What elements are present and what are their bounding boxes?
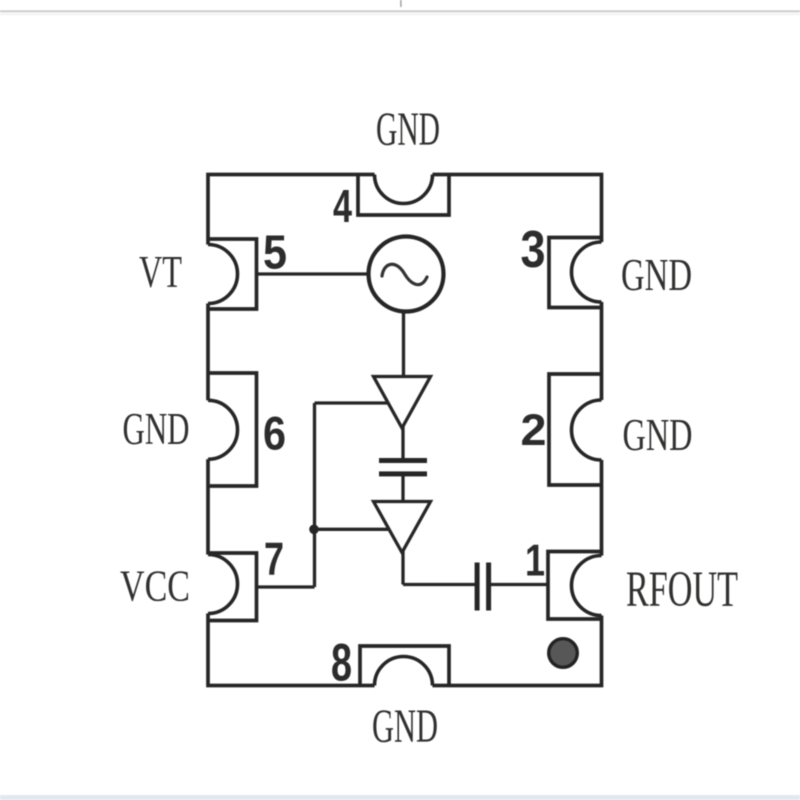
- feedback wire horizontal top: [315, 401, 390, 404]
- notch erasers: [179, 146, 632, 715]
- pin 2 notch: [572, 400, 602, 460]
- oscillator symbol: [369, 237, 444, 312]
- pin 6 tab: [208, 373, 257, 486]
- svg-text:VCC: VCC: [120, 562, 190, 611]
- oscillator sine wave: [382, 264, 427, 284]
- svg-text:8: 8: [331, 634, 352, 693]
- pin 8 notch: [375, 657, 433, 686]
- svg-text:5: 5: [263, 227, 287, 280]
- wire capacitor C1 to amp2: [401, 476, 404, 503]
- wire node to amp2 input: [315, 528, 393, 531]
- wire amp2 output down: [401, 551, 404, 585]
- pin 8 tab: [360, 646, 449, 686]
- svg-text:4: 4: [333, 180, 352, 232]
- pin 3 tab: [549, 238, 602, 308]
- svg-text:6: 6: [263, 407, 286, 460]
- svg-text:GND: GND: [123, 404, 190, 454]
- pin 2 tab: [549, 374, 602, 485]
- svg-text:1: 1: [525, 537, 545, 586]
- top hairline: [0, 10, 800, 12]
- pin 3 notch: [572, 242, 602, 302]
- svg-text:7: 7: [264, 533, 284, 585]
- capacitor C2 plate right: [486, 563, 491, 611]
- bottom band: [0, 795, 800, 800]
- pin 1 tab: [548, 552, 602, 620]
- wire oscillator to amp1: [402, 306, 405, 378]
- svg-text:GND: GND: [623, 409, 693, 460]
- svg-text:2: 2: [521, 406, 547, 455]
- wire pin7 to feedback: [257, 585, 315, 588]
- wire amp2 to capacitor C2: [403, 583, 476, 586]
- capacitor C2 plate left: [475, 563, 480, 611]
- svg-text:3: 3: [521, 220, 546, 278]
- feedback wire vertical: [313, 403, 316, 587]
- pin 4 tab: [358, 175, 449, 216]
- pin 5 tab: [208, 239, 257, 309]
- svg-text:GND: GND: [372, 700, 438, 753]
- svg-text:GND: GND: [621, 249, 692, 300]
- wire amp1 to capacitor C1: [401, 426, 404, 458]
- svg-text:VT: VT: [139, 246, 182, 297]
- pin 7 tab: [208, 553, 257, 621]
- pin 1 notch: [572, 556, 602, 616]
- pin 7 notch: [208, 555, 238, 614]
- pin 4 notch: [375, 175, 433, 204]
- capacitor C1 plate bottom: [379, 471, 427, 476]
- svg-text:GND: GND: [376, 103, 440, 156]
- pin 6 notch: [208, 400, 238, 459]
- junction node dot: [309, 525, 319, 535]
- top tick: [400, 0, 401, 7]
- pin 5 notch: [208, 245, 238, 304]
- wire pin5 to oscillator: [257, 272, 373, 275]
- pin 1 index marker dot: [549, 639, 578, 668]
- svg-text:RFOUT: RFOUT: [626, 562, 738, 618]
- capacitor C1 plate top: [379, 458, 427, 463]
- amplifier A1: [374, 377, 431, 429]
- package outline: [208, 175, 602, 686]
- wire capacitor C2 to pin1: [490, 583, 548, 586]
- amplifier A2: [374, 502, 431, 553]
